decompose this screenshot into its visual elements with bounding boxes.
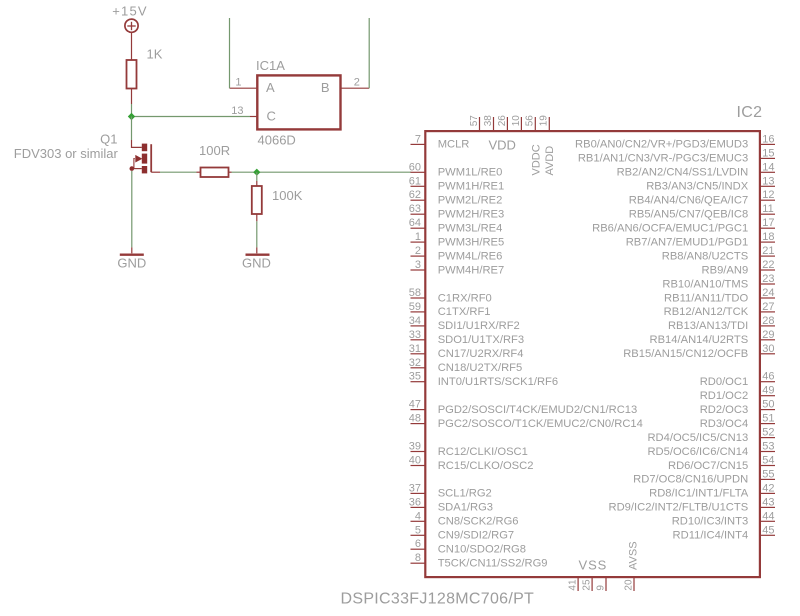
svg-text:CN17/U2RX/RF4: CN17/U2RX/RF4 xyxy=(438,348,524,360)
resistor 100K xyxy=(252,186,262,214)
svg-text:30: 30 xyxy=(762,343,774,355)
svg-text:26: 26 xyxy=(497,115,508,127)
svg-text:25: 25 xyxy=(582,579,593,591)
R 100K bottom pin xyxy=(256,214,258,221)
IC2 pin 51 RD3/OC4 xyxy=(700,413,775,430)
IC2 pin 23 RB10/AN10/TMS xyxy=(662,273,775,290)
svg-text:RB10/AN10/TMS: RB10/AN10/TMS xyxy=(662,278,748,290)
IC2 pin 60 PWM1L/RE0 xyxy=(409,161,503,178)
IC2 pin 35 INT0/U1RTS/SCK1/RF6 xyxy=(409,371,558,388)
svg-text:21: 21 xyxy=(762,245,774,257)
svg-text:RD11/IC4/INT4: RD11/IC4/INT4 xyxy=(673,530,749,542)
svg-text:37: 37 xyxy=(409,482,421,494)
svg-text:PWM1H/RE1: PWM1H/RE1 xyxy=(438,181,505,193)
IC2 pin 18 RB7/AN7/EMUD1/PGD1 xyxy=(626,231,775,248)
svg-text:18: 18 xyxy=(762,231,774,243)
svg-text:16: 16 xyxy=(762,133,774,145)
svg-text:RD10/IC3/INT3: RD10/IC3/INT3 xyxy=(672,516,748,528)
svg-text:60: 60 xyxy=(409,161,421,173)
svg-text:RB15/AN15/CN12/OCFB: RB15/AN15/CN12/OCFB xyxy=(623,348,748,360)
svg-text:SDA1/RG3: SDA1/RG3 xyxy=(438,502,493,514)
svg-text:PWM4L/RE6: PWM4L/RE6 xyxy=(438,250,503,262)
svg-text:RD8/IC1/INT1/FLTA: RD8/IC1/INT1/FLTA xyxy=(649,488,749,500)
IC2 pin 47 PGD2/SOSCI/T4CK/EMUD2/CN1/RC13 xyxy=(409,399,638,416)
IC2 top pin 56 xyxy=(525,115,536,131)
IC2 pin 39 RC12/CLKI/OSC1 xyxy=(409,441,528,458)
svg-text:47: 47 xyxy=(409,399,421,411)
transistor Q1 channel bars xyxy=(142,144,147,174)
IC2 pin 34 SDI1/U1RX/RF2 xyxy=(409,315,520,332)
wire node to IC1A pin 13 xyxy=(132,116,251,118)
svg-text:13: 13 xyxy=(762,175,774,187)
svg-text:AVSS: AVSS xyxy=(628,541,640,570)
svg-text:35: 35 xyxy=(409,371,421,383)
IC2 pin 32 CN18/U2TX/RF5 xyxy=(409,357,523,374)
wire Q1 source to GND xyxy=(131,171,133,248)
svg-text:39: 39 xyxy=(409,441,421,453)
IC2 pin 61 PWM1H/RE1 xyxy=(409,175,504,192)
wire Q1 gate to R 100R xyxy=(160,171,197,173)
svg-text:C1TX/RF1: C1TX/RF1 xyxy=(438,306,491,318)
IC2 pin 29 RB14/AN14/U2RTS xyxy=(650,329,775,346)
svg-text:49: 49 xyxy=(762,385,774,397)
svg-text:6: 6 xyxy=(415,538,421,550)
IC2 pin 45 RD11/IC4/INT4 xyxy=(673,524,775,541)
IC2 pin 16 RB0/AN0/CN2/VR+/PGD3/EMUD3 xyxy=(575,133,775,150)
svg-text:VDDC: VDDC xyxy=(531,144,543,175)
svg-text:RB14/AN14/U2RTS: RB14/AN14/U2RTS xyxy=(650,334,749,346)
svg-text:38: 38 xyxy=(483,115,494,127)
transistor Q1 drain lead xyxy=(132,140,142,147)
svg-text:IC1A: IC1A xyxy=(256,58,285,73)
svg-text:2: 2 xyxy=(415,245,421,257)
svg-text:RD0/OC1: RD0/OC1 xyxy=(700,376,749,388)
svg-text:64: 64 xyxy=(409,217,421,229)
IC2 pin 31 CN17/U2RX/RF4 xyxy=(409,343,524,360)
resistor 1K xyxy=(127,60,137,89)
svg-text:51: 51 xyxy=(762,413,774,425)
svg-text:13: 13 xyxy=(231,105,243,117)
svg-text:48: 48 xyxy=(409,413,421,425)
svg-text:41: 41 xyxy=(568,579,579,591)
svg-text:INT0/U1RTS/SCK1/RF6: INT0/U1RTS/SCK1/RF6 xyxy=(438,376,558,388)
IC2 pin 55 RD7/OC8/CN16/UPDN xyxy=(633,468,775,485)
svg-text:5: 5 xyxy=(415,524,421,536)
svg-text:PWM4H/RE7: PWM4H/RE7 xyxy=(438,264,505,276)
svg-text:63: 63 xyxy=(409,203,421,215)
svg-text:100K: 100K xyxy=(272,188,303,203)
svg-text:14: 14 xyxy=(762,161,774,173)
IC2 pin 43 RD9/IC2/INT2/FLTB/U1CTS xyxy=(609,496,775,513)
IC2 top pin 10 xyxy=(511,115,522,131)
IC2 bottom pin 25 xyxy=(582,577,593,591)
IC2 pin 64 PWM3L/RE4 xyxy=(409,217,503,234)
IC2 pin 58 C1RX/RF0 xyxy=(409,287,492,304)
wire R1K to node xyxy=(131,104,133,117)
transistor Q1 bulk arrow xyxy=(133,159,136,169)
resistor 100R xyxy=(201,168,229,178)
svg-text:46: 46 xyxy=(762,371,774,383)
svg-text:100R: 100R xyxy=(199,143,230,158)
svg-text:40: 40 xyxy=(409,455,421,467)
svg-text:RB1/AN1/CN3/VR-/PGC3/EMUC3: RB1/AN1/CN3/VR-/PGC3/EMUC3 xyxy=(578,153,748,165)
svg-text:RB13/AN13/TDI: RB13/AN13/TDI xyxy=(668,320,748,332)
IC2 bottom pin 9 xyxy=(595,577,606,591)
svg-text:RB11/AN11/TDO: RB11/AN11/TDO xyxy=(664,292,748,304)
IC2 pin 44 RD10/IC3/INT3 xyxy=(672,510,775,527)
svg-text:SDI1/U1RX/RF2: SDI1/U1RX/RF2 xyxy=(438,320,520,332)
IC2 pin 7 MCLR xyxy=(411,133,470,150)
IC2 pin 12 RB4/AN4/CN6/QEA/IC7 xyxy=(629,189,775,206)
IC2 pin 63 PWM2H/RE3 xyxy=(409,203,504,220)
svg-text:PWM3L/RE4: PWM3L/RE4 xyxy=(438,223,503,235)
svg-text:RD6/OC7/CN15: RD6/OC7/CN15 xyxy=(668,460,748,472)
svg-text:1: 1 xyxy=(415,231,421,243)
IC2 pin 3 PWM4H/RE7 xyxy=(411,259,505,276)
IC2 top pin 26 xyxy=(497,115,508,131)
IC2 pin 54 RD6/OC7/CN15 xyxy=(668,455,775,472)
IC2 pin 17 RB6/AN6/OCFA/EMUC1/PGC1 xyxy=(592,217,775,234)
wire R 1K bottom pin xyxy=(131,89,133,105)
svg-text:12: 12 xyxy=(762,189,774,201)
wire 100R to IC2 pin 60 xyxy=(232,171,412,173)
IC2 pin 50 RD2/OC3 xyxy=(700,399,775,416)
svg-text:RD7/OC8/CN16/UPDN: RD7/OC8/CN16/UPDN xyxy=(633,474,748,486)
wire supply to R 1K xyxy=(131,32,133,60)
IC2 pin 30 RB15/AN15/CN12/OCFB xyxy=(623,343,775,360)
svg-text:11: 11 xyxy=(762,203,773,215)
svg-text:PWM3H/RE5: PWM3H/RE5 xyxy=(438,236,505,248)
svg-text:RD4/OC5/IC5/CN13: RD4/OC5/IC5/CN13 xyxy=(647,432,748,444)
svg-text:19: 19 xyxy=(539,115,550,127)
IC2 pin 62 PWM2L/RE2 xyxy=(409,189,503,206)
svg-text:RB3/AN3/CN5/INDX: RB3/AN3/CN5/INDX xyxy=(646,181,748,193)
svg-text:RB8/AN8/U2CTS: RB8/AN8/U2CTS xyxy=(662,250,748,262)
svg-text:58: 58 xyxy=(409,287,421,299)
IC2 top pin 19 xyxy=(539,115,550,131)
IC2 pin 13 RB3/AN3/CN5/INDX xyxy=(646,175,775,192)
svg-text:AVDD: AVDD xyxy=(544,146,556,176)
svg-text:PGC2/SOSCO/T1CK/EMUC2/CN0/RC14: PGC2/SOSCO/T1CK/EMUC2/CN0/RC14 xyxy=(438,418,643,430)
svg-text:62: 62 xyxy=(409,189,421,201)
svg-text:4066D: 4066D xyxy=(258,133,296,148)
IC2 pin 40 RC15/CLKO/OSC2 xyxy=(409,455,534,472)
svg-text:42: 42 xyxy=(762,482,774,494)
ground left symbol xyxy=(120,253,144,255)
svg-text:55: 55 xyxy=(762,468,774,480)
GND pin left xyxy=(131,247,133,253)
GND pin right xyxy=(256,247,258,253)
svg-text:RD5/OC6/IC6/CN14: RD5/OC6/IC6/CN14 xyxy=(647,446,748,458)
svg-text:31: 31 xyxy=(409,343,421,355)
svg-text:3: 3 xyxy=(415,259,421,271)
IC2 pin 8 T5CK/CN11/SS2/RG9 xyxy=(411,552,548,569)
IC2 pin 59 C1TX/RF1 xyxy=(409,301,491,318)
svg-text:A: A xyxy=(266,80,275,95)
analog switch IC1A box xyxy=(257,75,340,129)
svg-text:1: 1 xyxy=(235,77,241,89)
svg-text:RB2/AN2/CN4/SS1/LVDIN: RB2/AN2/CN4/SS1/LVDIN xyxy=(617,167,749,179)
wire net at IC1A pin 1 xyxy=(229,18,231,88)
svg-text:RB12/AN12/TCK: RB12/AN12/TCK xyxy=(664,306,749,318)
svg-text:RC12/CLKI/OSC1: RC12/CLKI/OSC1 xyxy=(438,446,528,458)
svg-text:B: B xyxy=(321,80,330,95)
svg-text:52: 52 xyxy=(762,427,774,439)
svg-text:15: 15 xyxy=(762,147,774,159)
svg-text:RB0/AN0/CN2/VR+/PGD3/EMUD3: RB0/AN0/CN2/VR+/PGD3/EMUD3 xyxy=(575,139,748,151)
svg-text:CN8/SCK2/RG6: CN8/SCK2/RG6 xyxy=(438,516,519,528)
svg-text:C1RX/RF0: C1RX/RF0 xyxy=(438,292,492,304)
svg-text:8: 8 xyxy=(415,552,421,564)
svg-text:27: 27 xyxy=(762,301,774,313)
svg-text:43: 43 xyxy=(762,496,774,508)
IC2 pin 27 RB12/AN12/TCK xyxy=(664,301,775,318)
svg-text:RB9/AN9: RB9/AN9 xyxy=(702,264,749,276)
transistor Q1 gate bar xyxy=(150,144,152,172)
IC1A pin 2 stub xyxy=(341,87,370,89)
svg-text:57: 57 xyxy=(469,115,480,127)
IC2 pin 52 RD4/OC5/IC5/CN13 xyxy=(647,427,775,444)
svg-text:20: 20 xyxy=(623,579,634,591)
wire 100K to GND xyxy=(256,221,258,247)
svg-text:RC15/CLKO/OSC2: RC15/CLKO/OSC2 xyxy=(438,460,534,472)
wire net at IC1A pin 2 xyxy=(368,18,370,88)
svg-text:29: 29 xyxy=(762,329,774,341)
svg-text:SDO1/U1TX/RF3: SDO1/U1TX/RF3 xyxy=(438,334,524,346)
svg-text:CN9/SDI2/RG7: CN9/SDI2/RG7 xyxy=(438,530,514,542)
svg-text:RD2/OC3: RD2/OC3 xyxy=(700,404,749,416)
svg-text:RD3/OC4: RD3/OC4 xyxy=(700,418,749,430)
IC2 pin 15 RB1/AN1/CN3/VR-/PGC3/EMUC3 xyxy=(578,147,775,164)
svg-text:36: 36 xyxy=(409,496,421,508)
svg-text:4: 4 xyxy=(415,510,421,522)
junction node gate of Q1 xyxy=(128,113,135,120)
svg-text:1K: 1K xyxy=(147,47,163,62)
svg-text:T5CK/CN11/SS2/RG9: T5CK/CN11/SS2/RG9 xyxy=(438,558,548,570)
svg-text:10: 10 xyxy=(511,115,522,127)
svg-text:PWM2H/RE3: PWM2H/RE3 xyxy=(438,209,505,221)
IC1A pin 13 stub xyxy=(250,116,257,118)
svg-text:RB6/AN6/OCFA/EMUC1/PGC1: RB6/AN6/OCFA/EMUC1/PGC1 xyxy=(592,223,748,235)
ground right symbol xyxy=(246,253,270,255)
IC2 pin 21 RB8/AN8/U2CTS xyxy=(662,245,775,262)
supply +15V symbol xyxy=(125,19,138,32)
R 100R right pin xyxy=(229,171,232,173)
svg-text:CN18/U2TX/RF5: CN18/U2TX/RF5 xyxy=(438,362,523,374)
IC2 pin 46 RD0/OC1 xyxy=(700,371,775,388)
svg-text:PGD2/SOSCI/T4CK/EMUD2/CN1/RC13: PGD2/SOSCI/T4CK/EMUD2/CN1/RC13 xyxy=(438,404,638,416)
IC2 pin 14 RB2/AN2/CN4/SS1/LVDIN xyxy=(617,161,775,178)
IC2 pin 24 RB11/AN11/TDO xyxy=(664,287,775,304)
svg-text:22: 22 xyxy=(762,259,774,271)
R 100K top pin xyxy=(256,181,258,186)
svg-text:RD1/OC2: RD1/OC2 xyxy=(700,390,749,402)
IC2 pin 42 RD8/IC1/INT1/FLTA xyxy=(649,482,775,499)
svg-text:VDD: VDD xyxy=(489,138,516,153)
svg-text:PWM2L/RE2: PWM2L/RE2 xyxy=(438,195,503,207)
IC2 bottom pin 20 xyxy=(623,577,634,591)
svg-text:53: 53 xyxy=(762,441,774,453)
IC1A pin 1 stub xyxy=(230,87,258,89)
IC2 pin 1 PWM3H/RE5 xyxy=(411,231,505,248)
svg-text:Q1: Q1 xyxy=(100,132,117,147)
svg-text:9: 9 xyxy=(595,585,606,591)
svg-text:34: 34 xyxy=(409,315,421,327)
svg-text:45: 45 xyxy=(762,524,774,536)
svg-text:17: 17 xyxy=(762,217,774,229)
svg-text:DSPIC33FJ128MC706/PT: DSPIC33FJ128MC706/PT xyxy=(341,591,535,608)
svg-text:GND: GND xyxy=(242,256,271,271)
svg-text:23: 23 xyxy=(762,273,774,285)
IC2 pin 22 RB9/AN9 xyxy=(702,259,775,276)
svg-text:50: 50 xyxy=(762,399,774,411)
IC2 pin 6 CN10/SDO2/RG8 xyxy=(411,538,526,555)
IC2 pin 37 SCL1/RG2 xyxy=(409,482,492,499)
wire junction to R 100K xyxy=(256,172,258,181)
IC2 pin 36 SDA1/RG3 xyxy=(409,496,493,513)
IC2 pin 53 RD5/OC6/IC6/CN14 xyxy=(647,441,775,458)
IC2 pin 4 CN8/SCK2/RG6 xyxy=(411,510,519,527)
svg-text:+15V: +15V xyxy=(112,4,148,19)
IC2 pin 11 RB5/AN5/CN7/QEB/IC8 xyxy=(629,203,775,220)
IC2 pin 48 PGC2/SOSCO/T1CK/EMUC2/CN0/RC14 xyxy=(409,413,643,430)
svg-text:MCLR: MCLR xyxy=(438,139,470,151)
IC2 pin 49 RD1/OC2 xyxy=(700,385,775,402)
svg-text:44: 44 xyxy=(762,510,774,522)
svg-text:33: 33 xyxy=(409,329,421,341)
IC2 bottom pin 41 xyxy=(568,577,579,591)
svg-text:56: 56 xyxy=(525,115,536,127)
svg-text:FDV303 or similar: FDV303 or similar xyxy=(14,146,119,161)
svg-text:C: C xyxy=(267,109,276,124)
svg-text:VSS: VSS xyxy=(579,558,608,573)
junction node 100K top xyxy=(253,169,260,176)
IC2 pin 2 PWM4L/RE6 xyxy=(411,245,503,262)
IC2 pin 28 RB13/AN13/TDI xyxy=(668,315,775,332)
IC2 top pin 57 xyxy=(469,115,480,131)
svg-text:24: 24 xyxy=(762,287,774,299)
svg-text:54: 54 xyxy=(762,455,774,467)
svg-text:32: 32 xyxy=(409,357,421,369)
svg-text:GND: GND xyxy=(117,256,146,271)
svg-text:RB5/AN5/CN7/QEB/IC8: RB5/AN5/CN7/QEB/IC8 xyxy=(629,209,748,221)
IC2 pin 5 CN9/SDI2/RG7 xyxy=(411,524,515,541)
transistor Q1 source lead xyxy=(132,168,142,170)
svg-text:RB4/AN4/CN6/QEA/IC7: RB4/AN4/CN6/QEA/IC7 xyxy=(629,195,748,207)
svg-text:SCL1/RG2: SCL1/RG2 xyxy=(438,488,492,500)
svg-text:2: 2 xyxy=(354,77,360,89)
svg-text:59: 59 xyxy=(409,301,421,313)
svg-text:CN10/SDO2/RG8: CN10/SDO2/RG8 xyxy=(438,544,526,556)
svg-text:61: 61 xyxy=(409,175,421,187)
svg-text:RD9/IC2/INT2/FLTB/U1CTS: RD9/IC2/INT2/FLTB/U1CTS xyxy=(609,502,749,514)
R 100R left pin xyxy=(197,171,201,173)
svg-text:PWM1L/RE0: PWM1L/RE0 xyxy=(438,167,503,179)
microcontroller IC2 box xyxy=(425,131,760,577)
svg-text:RB7/AN7/EMUD1/PGD1: RB7/AN7/EMUD1/PGD1 xyxy=(626,236,748,248)
transistor Q1 source dot xyxy=(130,166,135,171)
IC2 top pin 38 xyxy=(483,115,494,131)
svg-text:28: 28 xyxy=(762,315,774,327)
svg-text:7: 7 xyxy=(415,133,421,145)
svg-text:IC2: IC2 xyxy=(737,104,763,121)
IC2 pin 33 SDO1/U1TX/RF3 xyxy=(409,329,524,346)
transistor Q1 gate pin xyxy=(151,171,160,173)
wire node to Q1 drain xyxy=(131,117,133,141)
